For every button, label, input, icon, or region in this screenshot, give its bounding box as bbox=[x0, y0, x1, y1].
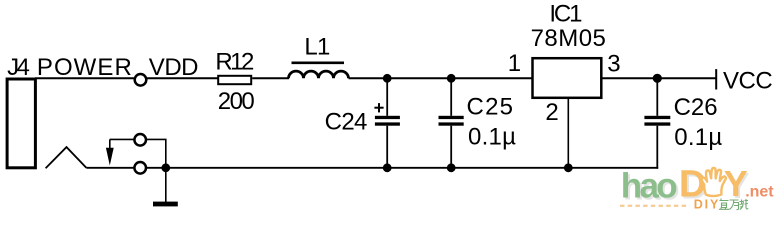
svg-text:C24: C24 bbox=[325, 109, 368, 136]
svg-text:POWER: POWER bbox=[37, 54, 132, 81]
svg-text:DIY: DIY bbox=[694, 198, 719, 212]
svg-text:2: 2 bbox=[545, 99, 558, 126]
capacitor C24 bbox=[325, 78, 400, 168]
svg-text:78M05: 78M05 bbox=[531, 25, 606, 52]
junction top at C25 bbox=[447, 74, 456, 83]
svg-text:0.1µ: 0.1µ bbox=[674, 124, 722, 151]
svg-text:VDD: VDD bbox=[149, 54, 199, 81]
wire L1 to IC pin1 bbox=[349, 77, 532, 79]
capacitor C25 bbox=[439, 78, 517, 168]
junction bottom at pin2 bbox=[564, 163, 573, 172]
logo shadow bbox=[623, 165, 750, 208]
IC U1 78M05 bbox=[508, 0, 621, 126]
terminal VCC bbox=[716, 67, 773, 94]
wire top rail left bbox=[35, 77, 135, 79]
inductor L1 bbox=[289, 33, 349, 78]
capacitor C26 bbox=[644, 78, 722, 168]
junction bottom switch bbox=[161, 163, 170, 172]
wire bottom rail bbox=[146, 167, 658, 169]
svg-text:hao: hao bbox=[621, 166, 678, 205]
zigzag jack switch lever bbox=[46, 147, 87, 168]
haoDIY.net watermark logo bbox=[620, 163, 774, 212]
svg-text:200: 200 bbox=[218, 88, 255, 115]
junction top at C26 bbox=[653, 74, 662, 83]
svg-text:3: 3 bbox=[607, 51, 620, 78]
logo dashed rule bbox=[620, 205, 690, 207]
connector J4 bbox=[7, 79, 35, 168]
junction bottom at C24 bbox=[383, 163, 392, 172]
wire IC pin3 to VCC bbox=[603, 77, 717, 79]
logo hand bbox=[702, 168, 726, 196]
wire IC pin2 bbox=[567, 99, 569, 168]
junction bottom at C25 bbox=[447, 163, 456, 172]
svg-text:C26: C26 bbox=[674, 94, 718, 121]
junction top at C24 bbox=[383, 74, 392, 83]
switch contact upper bbox=[110, 134, 166, 168]
switch contact lower bbox=[134, 162, 146, 174]
wire bottom rail left of contact bbox=[86, 167, 134, 169]
logo tagline Chinese 真有趣 (approximated strokes) bbox=[719, 199, 748, 210]
svg-text:1: 1 bbox=[508, 50, 521, 77]
wire R12 to L1 bbox=[252, 77, 289, 79]
node VDD bbox=[135, 54, 199, 86]
wire VDD to R12 bbox=[146, 77, 217, 79]
svg-text:0.1µ: 0.1µ bbox=[468, 123, 516, 150]
svg-text:.net: .net bbox=[745, 184, 774, 201]
ground bbox=[153, 168, 178, 207]
svg-text:L1: L1 bbox=[304, 33, 330, 60]
jack pin arrow bbox=[106, 139, 114, 165]
svg-text:C25: C25 bbox=[467, 94, 514, 121]
svg-text:R12: R12 bbox=[215, 49, 254, 76]
resistor R1 2 bbox=[215, 49, 254, 116]
svg-text:VCC: VCC bbox=[723, 67, 773, 94]
svg-text:J4: J4 bbox=[7, 54, 30, 81]
svg-text:IC1: IC1 bbox=[549, 0, 582, 27]
